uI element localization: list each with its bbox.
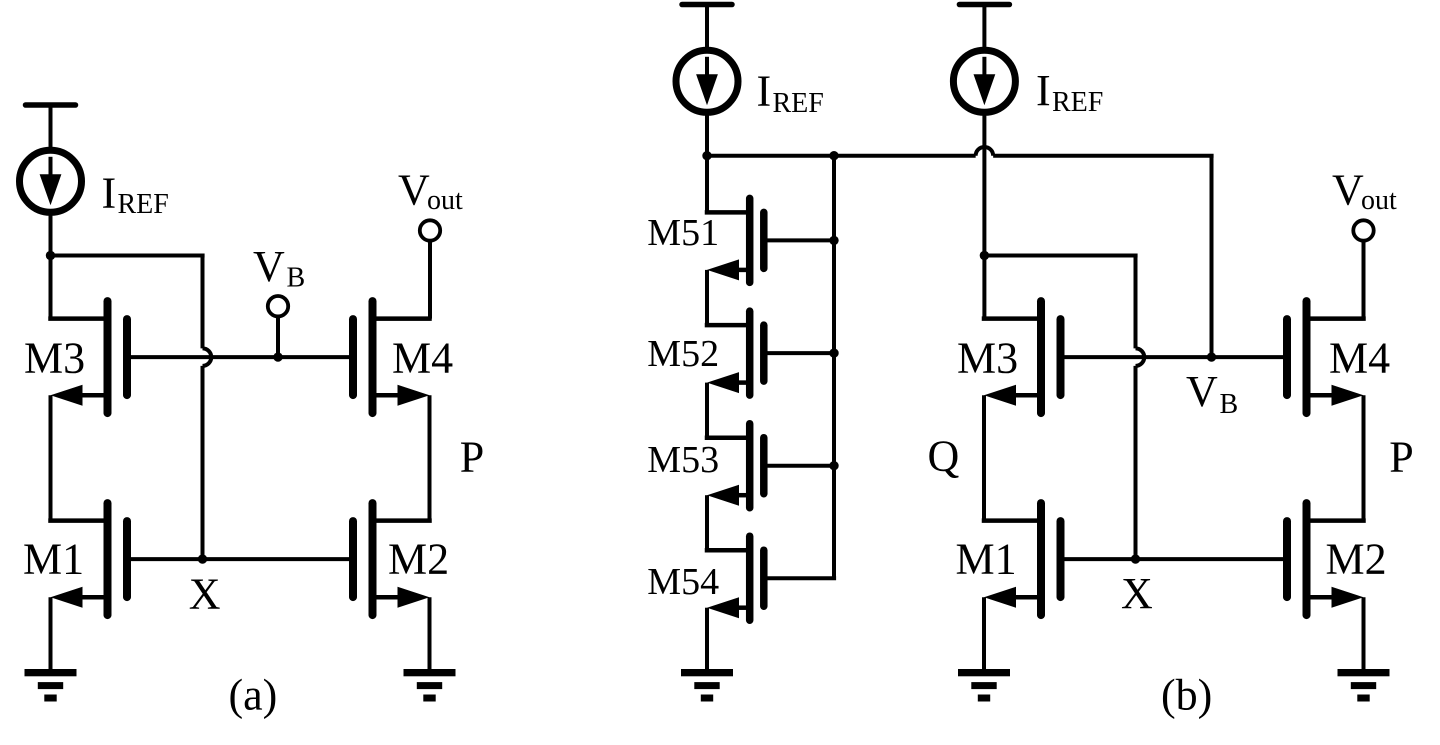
- wire M53 source to M54 drain (b): [705, 495, 709, 550]
- svg-text:M3: M3: [957, 334, 1018, 383]
- label X (a): [189, 569, 221, 618]
- terminal Vout (b): [1307, 220, 1374, 318]
- svg-text:I: I: [102, 169, 117, 218]
- svg-text:M54: M54: [647, 561, 719, 603]
- label M1: [23, 535, 84, 584]
- wire M1 source to ground (a): [49, 597, 53, 669]
- ground M2 (b): [1338, 669, 1390, 702]
- transistor M2 (b): [1287, 503, 1366, 615]
- gate bus column M51-M54 (b): [832, 156, 836, 579]
- svg-text:REF: REF: [118, 189, 169, 220]
- label Vout (b): [1332, 166, 1397, 217]
- svg-text:I: I: [757, 67, 772, 116]
- label M54: [647, 561, 719, 603]
- gate wire M1-M2 (a): [127, 557, 354, 561]
- wire M4 source to M2 drain / node P (b): [1362, 395, 1366, 520]
- svg-text:V: V: [1186, 367, 1218, 416]
- wire bias column lower (a): [201, 366, 205, 559]
- transistor M53: [705, 424, 764, 508]
- VB column (b): [1210, 156, 1214, 357]
- svg-text:V: V: [398, 166, 430, 215]
- wire hop over gate wire (a): [203, 348, 212, 366]
- label IREF (a): [102, 169, 169, 221]
- wire IREF2 down to M3 drain (b): [982, 112, 986, 318]
- transistor M51: [705, 198, 764, 282]
- svg-text:V: V: [253, 242, 285, 291]
- label P (b): [1389, 433, 1413, 482]
- svg-text:M53: M53: [647, 439, 719, 481]
- svg-text:M1: M1: [23, 535, 84, 584]
- node X dot (a): [198, 554, 207, 563]
- wire hop over gate wire (b): [1136, 348, 1145, 366]
- transistor M2: [353, 503, 432, 615]
- svg-text:M52: M52: [647, 333, 719, 375]
- gate bus dot M52 (b): [829, 348, 838, 357]
- terminal VB (a): [268, 296, 288, 357]
- label M2: [388, 535, 449, 584]
- ground M54 (b): [681, 669, 733, 702]
- label M2 (b): [1326, 535, 1387, 584]
- svg-text:M2: M2: [388, 535, 449, 584]
- node dot gate bus (b): [829, 151, 838, 160]
- transistor M1: [48, 503, 127, 615]
- node dot IREF (a): [46, 251, 55, 260]
- label VB (a): [253, 242, 305, 293]
- transistor M54: [705, 536, 764, 620]
- caption (a): [229, 670, 278, 719]
- X column upper (b): [1134, 256, 1138, 349]
- supply rail 2 (b): [959, 5, 1009, 51]
- node X dot (b): [1131, 554, 1140, 563]
- svg-text:M4: M4: [392, 334, 453, 383]
- label X (b): [1121, 569, 1153, 618]
- label M4 (b): [1329, 334, 1390, 383]
- svg-text:REF: REF: [773, 88, 824, 119]
- gate wire M54 (b): [764, 576, 836, 580]
- wire M3 source to M1 drain (a): [49, 395, 53, 520]
- svg-text:M4: M4: [1329, 334, 1390, 383]
- wire M3 source to M1 drain / node Q (b): [982, 395, 986, 520]
- wire IREF2 node to X column (b): [984, 254, 1137, 258]
- label M1 (b): [956, 535, 1017, 584]
- wire M51 source to M52 drain (b): [705, 270, 709, 325]
- ground M1 (b): [958, 669, 1010, 702]
- svg-text:I: I: [1036, 66, 1051, 115]
- gate bus dot M51 (b): [829, 236, 838, 245]
- label Q (b): [928, 431, 960, 480]
- label IREF 2 (b): [1036, 66, 1103, 118]
- label P (a): [460, 433, 484, 482]
- wire M2 source to ground (b): [1362, 597, 1366, 669]
- current source IREF (a): [20, 150, 82, 212]
- label M51: [647, 212, 719, 254]
- label VB (b): [1186, 367, 1238, 420]
- svg-text:M3: M3: [24, 334, 85, 383]
- node dot VB (a): [273, 352, 282, 361]
- transistor M52: [705, 311, 764, 395]
- svg-text:out: out: [1361, 185, 1397, 216]
- label IREF 1 (b): [757, 67, 824, 120]
- wire IREF node to bias column (a): [51, 254, 205, 258]
- ground M1 (a): [25, 669, 77, 702]
- svg-text:(b): (b): [1161, 670, 1212, 719]
- svg-text:M51: M51: [647, 212, 719, 254]
- wire M1 source to ground (b): [982, 597, 986, 669]
- svg-text:(a): (a): [229, 670, 278, 719]
- wire bias column upper (a): [201, 256, 205, 349]
- node dot VB (b): [1207, 352, 1216, 361]
- caption (b): [1161, 670, 1212, 719]
- node dot IREF1 bus (b): [702, 151, 711, 160]
- gate wire M3-M4 (a): [127, 355, 354, 359]
- current source IREF 2 (b): [953, 50, 1015, 112]
- label M52: [647, 333, 719, 375]
- ground M2 (a): [404, 669, 456, 702]
- transistor M1 (b): [982, 503, 1061, 615]
- gate wire M51 (b): [764, 238, 836, 242]
- label M3 (b): [957, 334, 1018, 383]
- wire M2 source to ground (a): [428, 597, 432, 669]
- transistor M3 (b): [982, 301, 1061, 413]
- svg-text:P: P: [1389, 433, 1413, 482]
- bias bus right (b): [993, 154, 1213, 158]
- transistor M4: [353, 301, 432, 413]
- wire M4 source to M2 drain / node P (a): [428, 395, 432, 520]
- node dot IREF2 (b): [980, 251, 989, 260]
- label M3: [24, 334, 85, 383]
- svg-text:out: out: [427, 185, 463, 216]
- bias bus left (b): [707, 154, 976, 158]
- wire M54 source to ground (b): [705, 608, 709, 669]
- label M4: [392, 334, 453, 383]
- terminal Vout (a): [373, 220, 441, 318]
- supply rail 1 (b): [682, 5, 732, 51]
- svg-text:V: V: [1332, 166, 1364, 215]
- svg-text:P: P: [460, 433, 484, 482]
- bus hop over IREF2 line (b): [976, 147, 994, 156]
- wire IREF to M3 drain (a): [49, 212, 53, 318]
- svg-text:M2: M2: [1326, 535, 1387, 584]
- wire M52 source to M53 drain (b): [705, 383, 709, 438]
- svg-text:M1: M1: [956, 535, 1017, 584]
- gate wire M53 (b): [764, 464, 836, 468]
- svg-text:X: X: [189, 569, 221, 618]
- svg-text:B: B: [287, 262, 306, 293]
- svg-text:X: X: [1121, 569, 1153, 618]
- label Vout (a): [398, 166, 463, 217]
- label M53: [647, 439, 719, 481]
- supply rail (a): [26, 105, 76, 151]
- svg-text:Q: Q: [928, 431, 960, 480]
- gate wire M3-M4 (b): [1061, 355, 1288, 359]
- current source IREF 1 (b): [676, 50, 738, 112]
- wire IREF1 to M51 (b): [705, 112, 709, 212]
- transistor M4 (b): [1287, 301, 1366, 413]
- X column lower (b): [1134, 366, 1138, 559]
- gate bus dot M53 (b): [829, 461, 838, 470]
- gate wire M1-M2 (b): [1061, 557, 1288, 561]
- gate wire M52 (b): [764, 351, 836, 355]
- svg-text:B: B: [1220, 389, 1239, 420]
- svg-text:REF: REF: [1052, 87, 1103, 118]
- transistor M3: [48, 301, 127, 413]
